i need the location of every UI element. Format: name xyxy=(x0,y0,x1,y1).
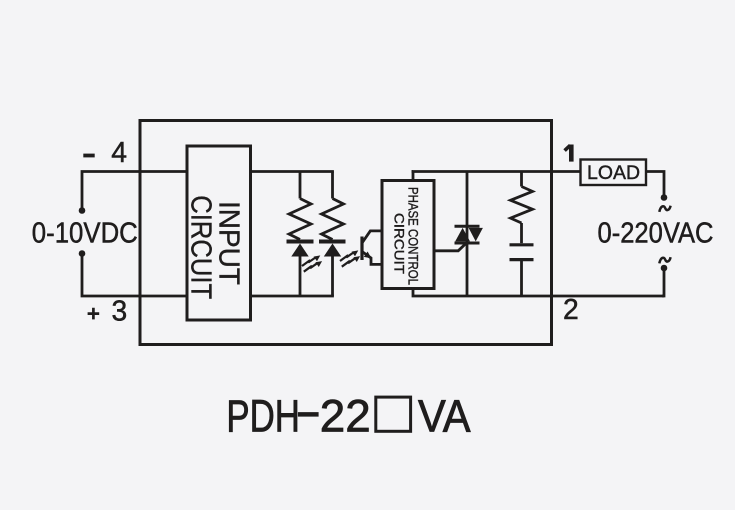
ac tilde bottom xyxy=(659,257,670,263)
wire terminal 4 to input circuit and dc source top xyxy=(82,172,189,211)
junction dot dc negative xyxy=(79,250,86,257)
LED D1 triangle xyxy=(291,244,308,257)
wire LOAD to ac source top xyxy=(646,172,664,198)
triac TR1 right triangle xyxy=(469,228,483,242)
wire terminal 3 to input circuit and dc source bottom xyxy=(82,254,189,297)
wire LED D2 bottom stub xyxy=(331,256,334,296)
LED D2 triangle xyxy=(324,244,341,257)
wire branch R2 top stub xyxy=(331,172,334,199)
wire R3 to C1 xyxy=(520,223,523,243)
outer enclosure box xyxy=(140,121,552,345)
svg-text:0-10VDC: 0-10VDC xyxy=(32,217,138,249)
model label option square xyxy=(376,397,411,431)
model label dash xyxy=(298,412,319,417)
resistor R2 xyxy=(322,199,344,240)
phototransistor Q1 emitter arrowhead xyxy=(364,252,372,259)
svg-text:22: 22 xyxy=(320,390,371,441)
light arrow Q1 lower xyxy=(342,256,360,267)
svg-text:2: 2 xyxy=(563,293,579,325)
resistor R3 snubber xyxy=(511,187,533,223)
wire phase control bottom stub and terminal 2 run xyxy=(413,287,664,296)
light arrow Q1 upper xyxy=(340,250,358,261)
svg-text:4: 4 xyxy=(111,136,127,168)
phototransistor Q1 emitter xyxy=(362,252,383,265)
wire triac TR1 vertical xyxy=(466,172,469,297)
svg-text:0-220VAC: 0-220VAC xyxy=(598,217,714,249)
wire terminal 1 run left of stub xyxy=(412,170,413,173)
junction dot dc positive xyxy=(79,207,86,214)
light arrow D1 lower xyxy=(304,261,322,272)
light arrow D1 upper xyxy=(302,255,320,266)
svg-text:VA: VA xyxy=(418,390,471,441)
ac tilde top xyxy=(659,206,670,212)
capacitor C1 bottom plate xyxy=(510,258,534,261)
triac TR1 top bar xyxy=(455,225,480,228)
resistor R1 xyxy=(289,199,311,240)
LED D2 cathode bar xyxy=(319,240,346,244)
svg-text:PDH: PDH xyxy=(226,390,300,441)
capacitor C1 top plate xyxy=(510,243,534,246)
wire branch R1 top stub xyxy=(299,172,302,199)
triac TR1 bottom bar xyxy=(455,242,480,245)
wire snubber branch top stub xyxy=(520,172,523,187)
polarity plus xyxy=(88,308,100,320)
phototransistor Q1 collector xyxy=(362,231,383,243)
wire LED D1 bottom stub xyxy=(299,256,302,296)
wire input circuit output bottom xyxy=(250,295,334,298)
junction dot ac bottom xyxy=(661,265,668,272)
wire input circuit output top xyxy=(250,170,334,173)
wire gate of triac from phase control xyxy=(434,243,466,250)
phase control circuit block U2 xyxy=(382,181,434,289)
wire phase control top stub xyxy=(413,172,581,183)
svg-text:3: 3 xyxy=(112,295,128,327)
svg-text:CIRCUIT: CIRCUIT xyxy=(391,213,407,274)
svg-text:LOAD: LOAD xyxy=(587,162,640,184)
svg-text:CIRCUIT: CIRCUIT xyxy=(185,195,217,299)
LED D1 cathode bar xyxy=(287,240,314,244)
wire ac source bottom vertical xyxy=(662,268,664,296)
triac TR1 left triangle xyxy=(455,228,470,242)
pin label 1 xyxy=(569,145,574,162)
wire C1 bottom stub xyxy=(520,261,523,296)
polarity minus xyxy=(83,154,94,158)
input circuit block U1 xyxy=(187,146,251,320)
junction dot ac top xyxy=(661,194,668,201)
load box xyxy=(581,160,647,186)
phototransistor Q1 base bar xyxy=(360,237,363,261)
